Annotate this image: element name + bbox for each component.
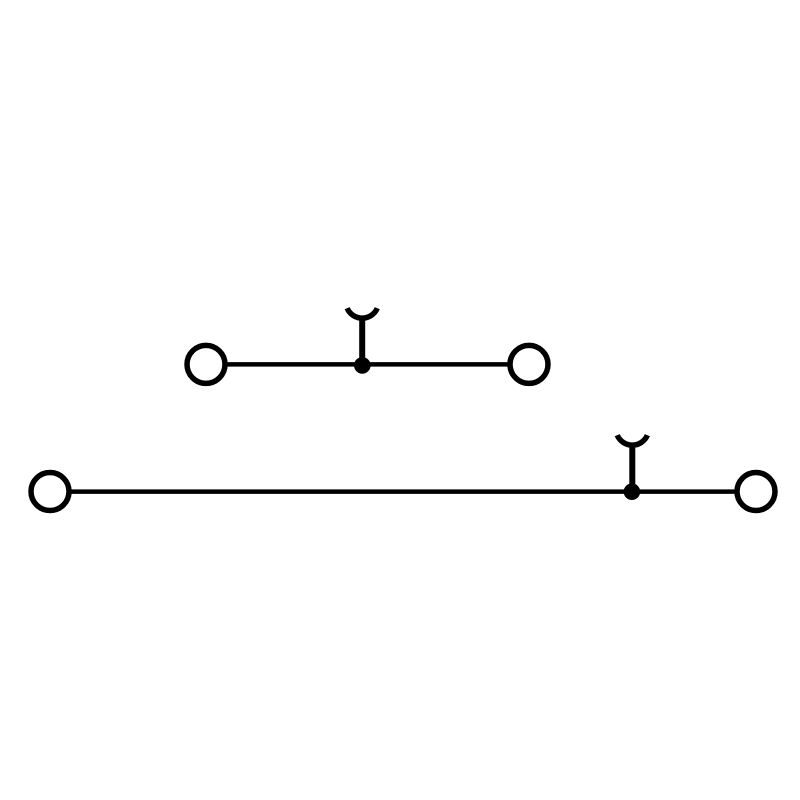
- terminal clamp 1.1 (upper left): [187, 345, 225, 383]
- terminal clamp 1.2 (upper right): [510, 345, 548, 383]
- wire: upper level conductor: [206, 362, 529, 367]
- junction dot: lower wire to tap: [624, 483, 641, 500]
- wire: lower tap stem: [629, 444, 635, 492]
- test tap T1 (upper level socket arc): [347, 308, 377, 318]
- test tap T2 (lower level socket arc): [617, 435, 647, 445]
- junction dot: upper wire to tap: [354, 357, 371, 374]
- terminal clamp 2.1 (lower left): [31, 473, 69, 511]
- wire: lower level conductor: [50, 489, 756, 494]
- wire: upper tap stem: [359, 317, 365, 366]
- terminal clamp 2.2 (lower right): [737, 473, 775, 511]
